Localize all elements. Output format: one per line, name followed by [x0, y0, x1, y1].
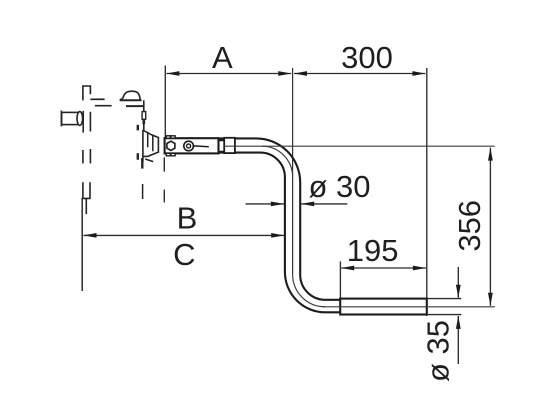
svg-text:C: C — [173, 237, 195, 272]
bracket plate line — [126, 105, 143, 107]
extension line 195 left — [339, 261, 341, 299]
tube outline top-outer contour — [219, 138, 342, 299]
dim ø30 left arrow — [246, 203, 284, 205]
svg-text:195: 195 — [347, 233, 399, 268]
tube centreline upper bend arc — [262, 146, 293, 177]
svg-text:356: 356 — [452, 200, 487, 252]
clamp bolt shaft — [194, 145, 209, 148]
ghost vertical segment left b — [89, 112, 91, 132]
ghost bracket step profile top-left — [83, 86, 91, 100]
ghost dash left a — [82, 150, 84, 163]
bracket vertical edge — [143, 100, 145, 130]
clamp body — [165, 138, 219, 153]
extension line A left — [164, 66, 166, 139]
rubber dome cap — [120, 91, 140, 100]
extension line centre (A/300) — [292, 68, 294, 274]
ghost fork bottom — [82, 182, 90, 214]
tube centreline horizontal upper + 356 extension — [224, 145, 495, 147]
ghost dash below wedge — [142, 184, 144, 199]
clamp washer — [184, 141, 194, 151]
clamp hex bolt — [167, 141, 175, 150]
svg-text:B: B — [177, 200, 198, 235]
svg-text:A: A — [212, 40, 233, 75]
collar box on tube — [224, 138, 235, 153]
neck between clamp and collar — [219, 140, 225, 151]
small pin box — [142, 112, 146, 120]
sleeve (ø35) on lower tube — [340, 299, 427, 315]
svg-text:ø 35: ø 35 — [420, 320, 455, 382]
wedge bottom lip — [145, 159, 153, 162]
tube centreline lower bend arc — [293, 274, 325, 306]
dim ø30 right arrow — [301, 203, 347, 205]
dome brim line — [120, 99, 142, 101]
ghost bracket horizontal dash 1 — [90, 98, 104, 100]
tube centreline horizontal lower + 356 extension — [322, 306, 495, 308]
ghost thick dash d — [137, 153, 139, 160]
dim line A — [166, 73, 291, 75]
ghost dash left b — [89, 149, 91, 163]
ghost vertical segment left a — [82, 111, 84, 133]
tube outline bottom-inner contour — [219, 153, 342, 313]
svg-text:300: 300 — [341, 40, 393, 75]
ø35 extension lines — [427, 298, 461, 300]
svg-text:ø 30: ø 30 — [309, 169, 371, 204]
dim line 356 vertical — [489, 148, 491, 306]
ghost thick dash c — [137, 125, 139, 130]
extension line B/C left — [81, 198, 83, 291]
wedge bracket — [143, 130, 159, 156]
ghost bracket horizontal dash 2 — [95, 105, 112, 107]
dim line B/C — [84, 234, 285, 236]
dim line 195 — [341, 267, 426, 269]
ghost dashed line under clamp — [163, 157, 165, 202]
bumper bolt cylinder — [62, 112, 78, 124]
dim line 300 — [294, 73, 425, 75]
clamp tabs — [166, 136, 170, 139]
dim ø35 upper arrow — [457, 267, 459, 298]
extension line 300/195 right — [426, 68, 428, 316]
dim ø35 lower arrow — [457, 316, 459, 364]
